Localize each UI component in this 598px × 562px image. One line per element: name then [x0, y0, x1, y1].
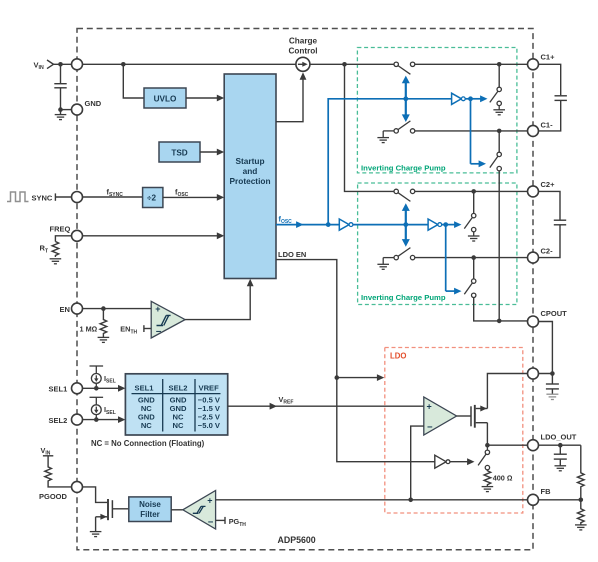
svg-text:ISEL: ISEL: [104, 374, 116, 385]
ground below RT: [50, 259, 62, 264]
buffer U4 400ohm driver: [435, 455, 450, 468]
toggle arrow pump2 (double headed): [402, 203, 410, 246]
svg-text:FB: FB: [541, 487, 552, 496]
label CPOUT: [541, 309, 568, 318]
node FB divider junction: [579, 498, 584, 503]
pad SYNC: [72, 192, 83, 203]
label RT: [40, 244, 49, 255]
label FB: [541, 487, 552, 496]
label VIN: [34, 60, 44, 71]
ground below C-VIN: [55, 110, 67, 120]
wire blue down to S1D: [470, 99, 472, 164]
charge pump 2 dashed box: [358, 183, 517, 305]
ground below LDO output cap: [555, 466, 567, 471]
svg-text:ENTH: ENTH: [120, 325, 137, 336]
arrow blue to S1C blade: [471, 95, 488, 102]
wire EN pad to comparator: [83, 308, 152, 310]
svg-text:SEL2: SEL2: [169, 383, 188, 392]
label 1Mohm: [80, 324, 98, 333]
resistor 400ohm: [484, 470, 491, 486]
node SEL2 junction: [94, 417, 99, 422]
pad SEL2: [72, 414, 83, 425]
wire PG plus input to FB line: [216, 499, 528, 501]
arrow blue to S2C blade: [446, 221, 462, 228]
svg-text:PGTH: PGTH: [229, 517, 247, 528]
wire VREF table to opamp with arrow: [228, 403, 424, 410]
svg-text:VIN: VIN: [41, 446, 51, 457]
svg-text:Noise: Noise: [139, 500, 161, 509]
wire S2B to C2- pad: [415, 257, 528, 259]
svg-text:Inverting Charge Pump: Inverting Charge Pump: [361, 293, 446, 302]
wire fOSC blue from startup: [276, 224, 339, 226]
label ISEL1: [104, 374, 116, 385]
label FREQ: [50, 224, 71, 233]
switch S1C pump1 discharge to ground: [490, 87, 502, 110]
svg-text:and: and: [243, 166, 258, 176]
block UVLO: [144, 88, 186, 108]
node C2+ discharge tap: [471, 189, 476, 194]
wire EN comparator output to startup: [185, 279, 254, 320]
svg-text:Charge: Charge: [289, 37, 318, 46]
inverter U1 pump1 (blue): [452, 93, 466, 104]
node C1+ discharge tap: [497, 62, 502, 67]
switch S1A pump1 top (VIN to C1+): [394, 62, 415, 74]
block VREF select table: [125, 374, 227, 435]
ground below 1Mohm: [98, 337, 110, 342]
label fOSC at divider: [175, 187, 189, 198]
resistor feedback top: [578, 445, 585, 500]
svg-text:fOSC: fOSC: [175, 187, 189, 198]
svg-text:TSD: TSD: [171, 148, 187, 157]
comparator EN (hysteresis): [151, 301, 185, 338]
wire ENTH stub tick: [144, 325, 151, 332]
svg-text:LDO_OUT: LDO_OUT: [541, 432, 577, 441]
switch S2C pump2 discharge to ground: [464, 213, 476, 236]
LDO dashed box: [385, 348, 523, 514]
arrow buffer to bleed switch blade: [450, 458, 475, 465]
svg-text:CPOUT: CPOUT: [541, 309, 568, 318]
switch S3 bleed 400ohm: [478, 445, 489, 470]
svg-text:EN: EN: [60, 305, 70, 314]
ground below S2C: [468, 236, 480, 241]
ground at S1B pump1: [377, 131, 389, 143]
node LDO_OUT junction: [485, 443, 490, 448]
svg-text:FREQ: FREQ: [50, 224, 71, 233]
wire junction to GND pad: [61, 109, 72, 111]
label C1-: [541, 120, 554, 129]
pad C2-: [528, 252, 539, 263]
label 400ohm: [493, 473, 513, 482]
svg-text:−: −: [427, 422, 433, 433]
label LDO: [390, 352, 406, 361]
svg-text:PGOOD: PGOOD: [39, 492, 68, 501]
node FB minus junction: [408, 498, 413, 503]
switch S1B pump1 bottom (gnd to C1-): [383, 121, 415, 133]
svg-text:fOSC: fOSC: [279, 214, 293, 225]
wire FREQ to startup with arrow: [83, 232, 225, 239]
wire CPOUT to LDO input pad external: [539, 322, 553, 374]
pad FB: [528, 494, 539, 505]
pad C2+: [528, 186, 539, 197]
block TSD: [159, 142, 200, 162]
comparator PG (faces left): [183, 491, 216, 530]
node EN resistor tap: [101, 306, 106, 311]
wire div2 to startup with arrow: [163, 194, 224, 201]
svg-text:+: +: [155, 304, 160, 314]
label SYNC waveform glyph: [7, 192, 29, 202]
svg-text:C1+: C1+: [541, 52, 556, 61]
svg-text:SEL1: SEL1: [49, 385, 68, 394]
node LDO EN branch junction: [335, 375, 340, 380]
wire Q1 source down to LDO_OUT: [486, 423, 488, 446]
wire LDO_OUT pad to output network: [539, 444, 581, 446]
wire blue down to S2D: [445, 225, 447, 292]
pad GND: [72, 104, 83, 115]
svg-text:C2+: C2+: [541, 180, 556, 189]
node pump2 VIN tap: [342, 62, 347, 67]
wire LDO EN down to 400ohm buffer: [337, 378, 435, 462]
pad CPOUT: [528, 316, 539, 327]
svg-text:NC: NC: [173, 421, 184, 430]
wire VIN input to pad: [54, 63, 72, 65]
wire UVLO to startup with arrow: [186, 95, 224, 102]
wire S2A to C2+ pad: [415, 190, 528, 192]
svg-text:fSYNC: fSYNC: [107, 187, 124, 198]
wire C2- tap down to S2D: [473, 258, 475, 279]
wire SYNC stub tick: [55, 193, 71, 200]
svg-text:Inverting Charge Pump: Inverting Charge Pump: [361, 163, 446, 172]
toggle arrow pump1 (double headed): [402, 76, 410, 122]
wire SEL1 to table with arrow: [83, 385, 126, 392]
wire LDO EN arrow into LDO box: [337, 374, 385, 381]
chip boundary ADP5600 (outer dashed border): [77, 29, 533, 550]
pad PGOOD: [72, 481, 83, 492]
wire startup to charge control with arrow: [276, 72, 306, 121]
svg-text:VREF: VREF: [199, 383, 220, 392]
wire inverter out to node: [465, 98, 470, 100]
pad LDO_OUT: [528, 440, 539, 451]
svg-text:VIN: VIN: [34, 60, 44, 71]
wire opamp output to mosfet gate: [457, 415, 471, 417]
node SEL1 junction: [94, 386, 99, 391]
svg-text:Filter: Filter: [140, 510, 160, 519]
label Inverting Charge Pump 2: [361, 293, 446, 302]
label C2-: [541, 246, 554, 255]
svg-text:NC: NC: [141, 421, 152, 430]
wire C1- tap down to S1D: [498, 131, 500, 152]
wire Q1 drain up to LDO input pad: [487, 374, 527, 409]
wire blue pump1 drive up: [328, 99, 451, 225]
wire PGOOD pad to mosfet drain: [83, 487, 108, 503]
svg-text:Protection: Protection: [229, 176, 270, 186]
node fOSC pump1 branch: [326, 222, 331, 227]
label Charge Control: [288, 37, 317, 56]
op-amp U3 LDO error amplifier: [424, 397, 457, 435]
transistor PGOOD nmos: [96, 499, 129, 532]
svg-text:RT: RT: [40, 244, 49, 255]
wire noise filter to PG comparator: [171, 509, 183, 511]
resistor 1Mohm: [100, 309, 107, 337]
pad C1+: [528, 59, 539, 70]
ground below S1C: [493, 110, 505, 115]
label VIN pullup: [41, 446, 51, 457]
label EN: [60, 305, 70, 314]
wire C1+ tap down to S1C: [498, 64, 500, 87]
label fSYNC: [107, 187, 124, 198]
svg-text:C1-: C1-: [541, 120, 554, 129]
label Inverting Charge Pump 1: [361, 163, 446, 172]
wire LDO EN from startup: [276, 260, 337, 378]
transistor Q1 LDO pass fet: [471, 405, 487, 428]
capacitor C-VIN: [54, 64, 66, 109]
svg-text:1 MΩ: 1 MΩ: [80, 324, 98, 333]
ground below feedback divider: [575, 525, 587, 530]
label C2+: [541, 180, 556, 189]
block Noise Filter: [129, 497, 171, 522]
capacitor LDO output: [554, 445, 567, 466]
label SYNC: [32, 194, 53, 203]
node toggle pump2 junction: [403, 222, 408, 227]
svg-text:−5.0 V: −5.0 V: [198, 421, 221, 430]
wire S1B to C1- pad: [415, 130, 528, 132]
label LDO EN: [278, 250, 306, 259]
charge pump 1 dashed box: [357, 48, 517, 173]
wire PGTH stub: [216, 517, 225, 524]
label LDO_OUT: [541, 432, 577, 441]
wire SYNC pad to div2: [83, 196, 143, 198]
current source ISEL1: [90, 366, 104, 388]
svg-text:−: −: [208, 517, 214, 528]
switch S2B pump2 bottom (gnd to C2-): [383, 248, 415, 260]
wire S2D down to CPOUT pad: [474, 298, 528, 321]
node LDO_OUT cap junction: [558, 443, 563, 448]
label PGOOD: [39, 492, 68, 501]
label C1+: [541, 52, 556, 61]
wire to LDO_OUT pad: [487, 444, 527, 446]
svg-text:GND: GND: [85, 99, 102, 108]
ground below 400ohm: [482, 487, 494, 492]
wire VIN branch to pump2: [345, 64, 395, 191]
switch S2D pump2 transfer to CPOUT: [464, 279, 476, 298]
svg-text:SYNC: SYNC: [32, 194, 53, 203]
pad LDO input: [528, 368, 539, 379]
svg-text:−: −: [156, 326, 162, 337]
svg-text:SEL1: SEL1: [135, 383, 155, 392]
wire FB pad to divider: [539, 499, 581, 501]
arrow blue to S2D blade: [446, 288, 462, 295]
svg-text:UVLO: UVLO: [154, 94, 177, 103]
current source ISEL2: [90, 397, 104, 419]
resistor RT: [52, 236, 71, 257]
node CPOUT junction: [497, 319, 502, 324]
ground below PGOOD mosfet: [90, 532, 102, 537]
svg-text:C2-: C2-: [541, 246, 554, 255]
block Startup and Protection: [224, 74, 276, 279]
svg-text:NC = No Connection (Floating): NC = No Connection (Floating): [91, 439, 205, 448]
resistor feedback bottom: [578, 500, 585, 525]
label PGTH: [229, 517, 247, 528]
node LDO input cap junction: [550, 371, 555, 376]
label ENTH: [120, 325, 137, 336]
svg-text:÷2: ÷2: [147, 194, 156, 203]
label NC note: [91, 439, 205, 448]
ground at S2B pump2: [377, 258, 389, 270]
svg-text:+: +: [207, 496, 212, 506]
switch S2A pump2 top (VIN to C2+): [394, 189, 415, 201]
label GND: [85, 99, 102, 108]
inverter U2B pump2 (blue): [428, 219, 442, 230]
wire blue between pump2 inverters: [353, 224, 428, 226]
node UVLO tap: [121, 62, 126, 67]
svg-text:Startup: Startup: [235, 156, 264, 166]
svg-text:ADP5600: ADP5600: [278, 535, 316, 545]
label ADP5600: [278, 535, 316, 545]
pad C1-: [528, 125, 539, 136]
svg-text:+: +: [427, 402, 432, 412]
node C2- transfer tap: [471, 255, 476, 260]
switch S1D pump1 transfer to CPOUT: [490, 152, 502, 171]
divider block /2: [143, 188, 163, 208]
wire VIN main rail: [83, 63, 395, 65]
pad VIN: [72, 59, 83, 70]
wire opamp minus input from FB: [411, 426, 424, 500]
wire TSD to startup with arrow: [200, 149, 224, 156]
wire SEL2 to table with arrow: [83, 416, 126, 423]
node VIN-cap junction: [58, 62, 63, 67]
resistor VIN pullup PGOOD: [43, 456, 72, 487]
node cap-GND junction: [58, 107, 63, 112]
svg-text:Control: Control: [288, 47, 317, 56]
capacitor LDO input: [546, 374, 559, 395]
label VREF wire: [279, 395, 294, 406]
label ISEL2: [104, 405, 116, 416]
node toggle pump1 junction: [403, 96, 408, 101]
label fOSC output (blue): [279, 214, 293, 225]
arrow fOSC blue mid: [296, 221, 303, 228]
wire S1D down to CPOUT rail: [498, 171, 500, 321]
wire UVLO tap down: [123, 64, 144, 98]
pad SEL1: [72, 383, 83, 394]
svg-text:400 Ω: 400 Ω: [493, 473, 513, 482]
node VIN input chevron: [47, 60, 54, 69]
node pump1 drive junction: [468, 96, 473, 101]
svg-text:LDO: LDO: [390, 352, 406, 361]
svg-text:SEL2: SEL2: [49, 416, 68, 425]
wire S1A to C1+ pad: [415, 63, 528, 65]
current source Charge Control circle: [296, 57, 310, 71]
arrow blue to S1D blade: [471, 160, 487, 167]
wire inverter out to pump2 node: [442, 224, 446, 226]
ground below LDO input cap (gray): [546, 394, 558, 399]
wire C2+ tap down to S2C: [473, 191, 475, 213]
pad EN: [72, 303, 83, 314]
svg-text:VREF: VREF: [279, 395, 294, 406]
svg-text:ISEL: ISEL: [104, 405, 116, 416]
capacitor C2 external: [539, 191, 567, 257]
label SEL1: [49, 385, 68, 394]
pad FREQ: [72, 230, 83, 241]
node C1- transfer tap: [497, 129, 502, 134]
label SEL2: [49, 416, 68, 425]
capacitor C1 external: [539, 64, 567, 131]
node pump2 drive junction: [443, 222, 448, 227]
svg-text:LDO EN: LDO EN: [278, 250, 306, 259]
inverter U2A pump2 (blue): [339, 219, 353, 230]
